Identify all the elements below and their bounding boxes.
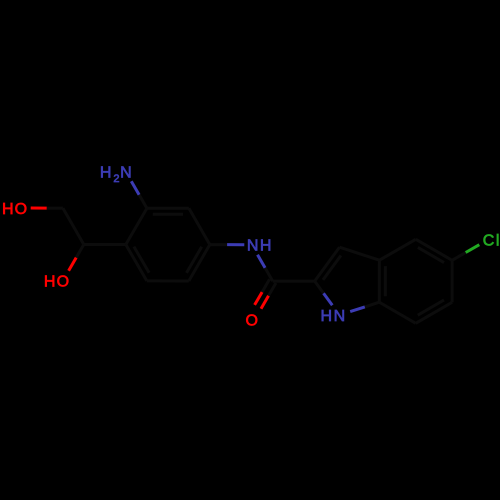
bond C4-Nam — [210, 243, 227, 246]
bond C5-C6 — [147, 279, 189, 282]
bond C9-C1 — [84, 243, 126, 246]
double bond C2i=C3i — [315, 247, 340, 281]
bond Nam-C10 — [258, 255, 266, 268]
double bond C6i=C7i — [416, 302, 452, 323]
svg-text:H: H — [100, 165, 112, 182]
svg-text:H: H — [260, 238, 272, 255]
double bond C6=C1 — [126, 245, 147, 281]
svg-text:O: O — [15, 201, 27, 218]
double bond C4=C5 — [189, 245, 210, 281]
bond C3-C4 — [189, 208, 210, 244]
bond O1-C8 — [31, 207, 47, 210]
svg-text:l: l — [496, 232, 500, 249]
bond C7a-N1i — [365, 302, 380, 307]
double bond C10=O3 (C=O) — [269, 283, 276, 296]
bond C7i-C7a — [379, 302, 415, 323]
svg-text:N: N — [247, 238, 259, 255]
bond C2-N2 — [139, 195, 147, 209]
svg-text:N: N — [120, 165, 132, 182]
bond C3i-C3a — [340, 247, 380, 260]
svg-text:O: O — [57, 274, 69, 291]
bond C10-C2i — [273, 280, 315, 283]
svg-text:N: N — [334, 308, 346, 325]
svg-text:H: H — [321, 308, 333, 325]
bond C8-C9 — [63, 208, 84, 244]
bond C3a-C4i — [379, 239, 415, 260]
double bond C3a=C7a — [378, 260, 381, 302]
svg-text:H: H — [2, 201, 14, 218]
svg-text:O: O — [245, 312, 257, 329]
bond C9-O2 — [76, 245, 84, 258]
bond C1-C2 — [126, 208, 147, 244]
svg-text:H: H — [44, 274, 56, 291]
svg-text:2: 2 — [113, 173, 119, 185]
bond N1i-C2i — [324, 293, 333, 305]
svg-text:C: C — [483, 232, 495, 249]
bond C5i-C6i — [451, 260, 454, 302]
bond C5i-Cl — [452, 253, 466, 261]
double bond C4i=C5i — [416, 239, 452, 260]
double bond C2=C3 — [147, 207, 189, 210]
